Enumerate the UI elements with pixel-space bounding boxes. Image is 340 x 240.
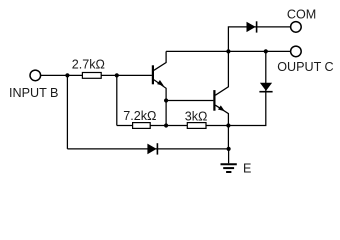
- wire input node down to bottom rail: [66, 75, 68, 148]
- wire COM branch up and right: [228, 27, 290, 52]
- ground: [221, 149, 237, 172]
- transistor Q1: [153, 51, 166, 100]
- wire Q1 emitter node to Q2 base: [166, 100, 213, 102]
- terminal OUPUT C: [291, 46, 302, 57]
- svg-text:OUPUT C: OUPUT C: [277, 60, 333, 74]
- value label 2.7kOhm: [72, 58, 105, 72]
- junction after 2.7k: [115, 73, 119, 77]
- junction Q1 emitter node: [164, 98, 168, 102]
- svg-text:COM: COM: [287, 8, 316, 22]
- wire resistor row y=125.5: [117, 125, 229, 127]
- junction bottom rail / ground: [227, 147, 231, 151]
- label INPUT B: [9, 86, 58, 100]
- label E: [243, 161, 251, 175]
- wire top collector rail: [166, 50, 290, 52]
- diode D1 COM branch: [247, 21, 257, 32]
- terminal INPUT B: [30, 70, 41, 81]
- wire 117.8 down to resistor row: [116, 75, 118, 125]
- wire Q1 emitter node down to resistor row: [165, 101, 167, 126]
- wire diode branch down and left: [228, 51, 265, 125]
- wire bottom rail: [67, 148, 228, 150]
- wire Q2 emitter node down to bottom rail: [227, 126, 229, 149]
- wire base line input to Q1: [41, 74, 152, 76]
- junction input node: [65, 73, 69, 77]
- svg-text:7.2kΩ: 7.2kΩ: [123, 109, 156, 123]
- junction resistor row / Q1 emitter branch: [164, 123, 168, 127]
- terminal COM: [291, 22, 302, 33]
- junction Q2 emitter / resistor row / diode branch: [226, 123, 230, 127]
- transistor Q2: [214, 51, 228, 125]
- diode D3 bottom rail: [147, 143, 157, 154]
- resistor 3kOhm: [187, 123, 206, 129]
- svg-text:3kΩ: 3kΩ: [185, 110, 208, 124]
- label COM: [287, 8, 316, 22]
- svg-text:INPUT B: INPUT B: [9, 86, 58, 100]
- diode D2 vertical branch: [259, 83, 272, 92]
- svg-text:2.7kΩ: 2.7kΩ: [72, 58, 105, 72]
- junction top rail / Q2 collector / COM branch: [226, 49, 230, 53]
- svg-text:E: E: [243, 161, 251, 175]
- label OUPUT C: [277, 60, 333, 74]
- junction top rail / diode branch: [264, 49, 268, 53]
- value label 7.2kOhm: [123, 109, 156, 123]
- value label 3kOhm: [185, 110, 208, 124]
- resistor 2.7kOhm: [82, 73, 101, 79]
- resistor 7.2kOhm: [133, 123, 151, 129]
